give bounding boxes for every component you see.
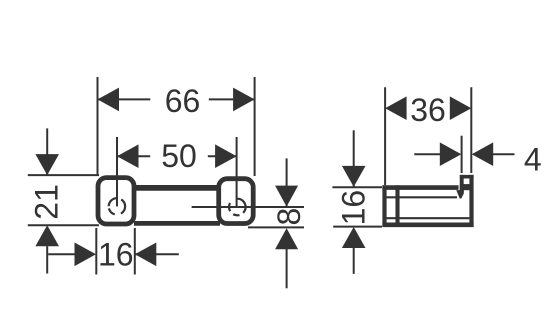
dim 21: dimension line top segment (46, 128, 48, 175)
bar top edge (134, 185, 220, 190)
right rosette (rounded square) (219, 179, 254, 224)
dim 36/4: right extension line (470, 87, 472, 173)
side: lip left edge (460, 175, 464, 192)
dim 36: left extension line (384, 87, 386, 185)
thin sub-line under bar top edge (126, 189, 226, 191)
side: plate inner vertical (395, 185, 399, 227)
svg-text:66: 66 (165, 83, 201, 119)
svg-text:16: 16 (98, 237, 134, 273)
dim 36: left arrow (385, 96, 407, 120)
dim 21: dimension line bottom segment (46, 246, 48, 273)
dim 21: bottom extension line (28, 224, 99, 226)
left rosette (rounded square) (98, 178, 134, 224)
dim 21: bottom arrow (up) (35, 225, 59, 246)
dim 66: left extension line (97, 77, 99, 175)
dim 16 side: bottom arrow (up) (342, 227, 366, 248)
side: top edge (382, 185, 458, 190)
dim 4: right arrow (points left) (472, 142, 494, 166)
svg-text:36: 36 (410, 92, 446, 128)
dim 16 side: bottom extension line (333, 226, 382, 228)
side: inner top line (385, 196, 458, 198)
dim 16 bottom: left extension line (95, 228, 97, 275)
dim 16 bottom: right arrow (135, 243, 157, 267)
svg-text:8: 8 (271, 208, 307, 226)
bar bottom edge (134, 221, 220, 226)
dim 16 bottom: left arrow (75, 243, 97, 267)
side: inner bottom line (385, 217, 470, 219)
side: lip solid below hole (460, 184, 470, 190)
dim 8: top extension line through right hole (192, 206, 304, 208)
dim 8: bottom arrow (up) (275, 228, 298, 249)
dim 36: right arrow (450, 96, 472, 120)
dim 4: left extension line (461, 136, 463, 173)
svg-text:50: 50 (161, 138, 197, 174)
dim 16 side: dimension line top segment (353, 130, 355, 186)
side: bottom edge (382, 223, 473, 228)
dim 8: bottom extension line (248, 226, 304, 228)
dim 16 side: top extension line (332, 186, 382, 188)
dim 50: left extension / hole centre line (116, 137, 118, 206)
dim 50: right extension / hole centre line (236, 137, 238, 207)
svg-text:16: 16 (336, 190, 372, 226)
dim 16 side: top arrow (down) (342, 166, 366, 187)
dim 21: top extension line (28, 174, 99, 176)
dim 4: left arrow (points right) (440, 142, 462, 166)
dim 16 side: dimension line bottom segment (353, 248, 355, 274)
dim 50: left arrow (117, 144, 139, 168)
side: wedge at lip base (456, 190, 464, 198)
dim 66: right extension line (254, 77, 256, 176)
dim 66: right arrow (233, 88, 255, 112)
left hole dashed circle (109, 198, 125, 214)
side: right edge (469, 175, 473, 227)
dim 8: top arrow (down) (286, 158, 288, 206)
right hole dashed circle (229, 199, 246, 216)
dim 16 bottom: right extension line (134, 228, 136, 275)
side: left (wall) edge (382, 185, 386, 227)
dim 66: left arrow (98, 88, 120, 112)
svg-text:21: 21 (28, 184, 64, 220)
dim 50: right arrow (215, 144, 237, 168)
svg-text:4: 4 (524, 141, 542, 177)
dim 21: top arrow (down) (35, 154, 59, 175)
side: lip top edge (460, 175, 474, 179)
